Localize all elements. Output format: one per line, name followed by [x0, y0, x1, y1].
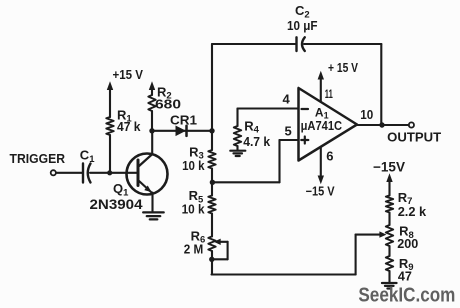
svg-text:680: 680 [155, 97, 181, 112]
svg-text:2 M: 2 M [184, 242, 204, 257]
svg-text:−15V: −15V [373, 160, 405, 175]
svg-text:+ 15 V: + 15 V [328, 61, 359, 75]
svg-text:10 k: 10 k [182, 158, 205, 173]
svg-text:47: 47 [398, 268, 412, 283]
svg-text:2.2 k: 2.2 k [398, 204, 427, 219]
svg-text:4.7 k: 4.7 k [243, 134, 271, 149]
svg-text:−15 V: −15 V [306, 184, 336, 198]
svg-text:10 μF: 10 μF [287, 19, 318, 33]
svg-text:10: 10 [360, 107, 373, 122]
svg-text:OUTPUT: OUTPUT [387, 129, 441, 144]
svg-text:TRIGGER: TRIGGER [10, 151, 66, 166]
svg-text:47 k: 47 k [117, 119, 141, 134]
svg-text:6: 6 [326, 149, 333, 164]
svg-text:SeekIC.com: SeekIC.com [358, 283, 455, 306]
svg-text:2N3904: 2N3904 [90, 197, 144, 212]
svg-text:10 k: 10 k [182, 201, 206, 216]
svg-text:11: 11 [325, 89, 333, 101]
svg-text:4: 4 [283, 92, 291, 107]
svg-text:+15 V: +15 V [113, 68, 144, 82]
svg-text:μA741C: μA741C [301, 119, 343, 133]
svg-text:200: 200 [397, 236, 418, 251]
svg-text:CR1: CR1 [170, 113, 197, 128]
svg-text:5: 5 [285, 123, 292, 138]
